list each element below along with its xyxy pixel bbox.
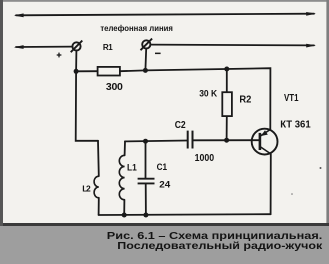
wire L2 top lead <box>97 141 100 176</box>
svg-text:24: 24 <box>159 180 171 191</box>
wire terminal1 down to node A <box>75 51 77 72</box>
label + <box>57 53 62 58</box>
node C1 top junction <box>143 139 148 144</box>
wire bottom rail <box>99 213 271 216</box>
wire L1 bottom lead <box>123 200 125 215</box>
wire R1 to node B <box>120 69 145 72</box>
svg-text:30 K: 30 K <box>199 89 217 99</box>
wire R2 bottom lead <box>226 116 228 140</box>
wire node A to R1 <box>76 70 98 72</box>
scan border right <box>326 0 329 226</box>
label - <box>155 53 161 55</box>
scan border left <box>0 0 3 226</box>
wire node B to emitter corner <box>145 68 270 129</box>
capacitor C2 <box>188 131 193 149</box>
terminal X1 plus side <box>71 41 83 53</box>
transistor VT1 <box>252 129 278 155</box>
svg-text:телефонная линия: телефонная линия <box>100 24 173 33</box>
wire C1 top lead <box>145 141 147 178</box>
inductor L2 <box>94 176 99 198</box>
wire telephone line 2 right segment <box>150 44 314 47</box>
arrow line2 left <box>14 45 24 49</box>
wire base from C2 to VT1 <box>193 139 259 141</box>
node R2 top junction <box>224 67 229 72</box>
svg-text:R1: R1 <box>103 43 113 52</box>
svg-text:C2: C2 <box>175 120 186 131</box>
scan border top <box>0 0 329 2</box>
resistor R1 <box>98 67 120 76</box>
node A junction <box>74 69 79 74</box>
node C1 bottom junction <box>143 213 148 218</box>
wire collector down to bottom rail <box>270 154 272 214</box>
node B junction <box>143 68 148 73</box>
wire C1 bottom lead <box>145 183 147 215</box>
node base junction <box>224 138 229 143</box>
svg-text:Последовательный радио-жучок: Последовательный радио-жучок <box>117 241 322 252</box>
arrow line2 right <box>306 44 316 48</box>
svg-text:КТ 361: КТ 361 <box>280 119 311 130</box>
wire telephone line 1 <box>16 14 314 16</box>
caption gray band <box>0 226 329 264</box>
wire node A down to L2 corner <box>76 71 98 141</box>
svg-text:1000: 1000 <box>195 153 215 164</box>
wire C1 top to C2 left <box>125 140 187 143</box>
svg-text:L1: L1 <box>127 162 137 173</box>
wire telephone line 2 left segment <box>16 46 72 48</box>
inductor L1 <box>119 155 124 200</box>
svg-text:R2: R2 <box>239 95 251 106</box>
terminal X2 minus side <box>141 39 153 51</box>
speck artifacts <box>320 167 322 169</box>
svg-text:VT1: VT1 <box>284 93 299 104</box>
wire L2 bottom lead <box>98 198 100 215</box>
node L1 bottom junction <box>122 213 127 218</box>
svg-text:300: 300 <box>106 81 123 93</box>
capacitor C1 <box>138 179 155 184</box>
svg-text:C1: C1 <box>157 162 168 173</box>
svg-text:L2: L2 <box>82 184 91 194</box>
wire R2 top lead <box>226 69 228 92</box>
arrow line1 right <box>306 12 316 16</box>
wire node B up to terminal2 <box>144 49 147 71</box>
arrow line1 left <box>14 13 24 17</box>
resistor R2 <box>222 92 232 116</box>
scan border bottom line <box>3 223 329 226</box>
wire L1 top lead <box>124 141 126 155</box>
